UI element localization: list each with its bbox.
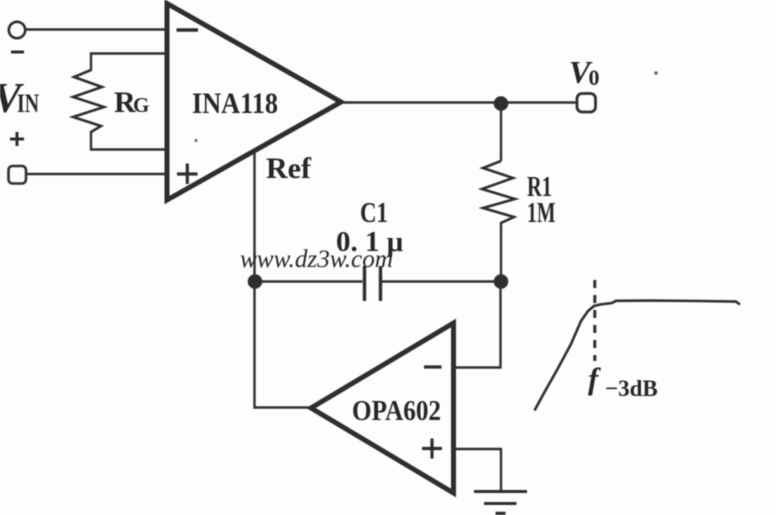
svg-text:www.dz3w.com: www.dz3w.com bbox=[240, 246, 393, 273]
svg-text:INA118: INA118 bbox=[192, 87, 278, 120]
svg-text:OPA602: OPA602 bbox=[352, 395, 441, 427]
svg-text:0: 0 bbox=[589, 65, 600, 90]
svg-text:1M: 1M bbox=[527, 197, 556, 229]
svg-text:Ref: Ref bbox=[266, 152, 312, 185]
svg-text:−3dB: −3dB bbox=[605, 376, 658, 401]
svg-text:IN: IN bbox=[17, 89, 39, 118]
svg-text:C1: C1 bbox=[360, 197, 388, 229]
svg-text:f: f bbox=[588, 361, 601, 396]
svg-text:G: G bbox=[133, 93, 149, 117]
